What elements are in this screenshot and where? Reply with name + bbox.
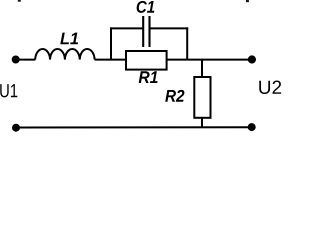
label U2 — [259, 81, 281, 94]
wire R1 to U2+ — [167, 59, 252, 61]
wire right leg of C1 branch — [186, 27, 188, 59]
node U1- terminal dot — [12, 124, 20, 132]
stray mark top edge right — [246, 0, 249, 2]
wire rail to R2 — [201, 60, 203, 77]
wire top branch left to C1 — [110, 27, 143, 29]
label C1 — [137, 1, 155, 13]
label R2 — [165, 90, 184, 102]
wire R2 to bottom rail — [201, 118, 203, 128]
inductor L1 — [35, 49, 94, 60]
wire bottom rail — [16, 126, 252, 128]
wire U1+ to L1 — [16, 59, 36, 61]
resistor R2 — [194, 77, 210, 118]
label L1 — [60, 33, 78, 45]
stray mark top edge left — [18, 0, 21, 2]
wire left leg of C1 branch — [110, 27, 112, 59]
node U2- terminal dot — [248, 123, 256, 131]
label R1 — [139, 71, 158, 83]
node U2+ terminal dot — [248, 55, 256, 63]
wire L1 to R1 — [95, 59, 126, 61]
wire top branch C1 to right leg — [150, 27, 189, 29]
capacitor C1 — [143, 16, 149, 47]
node U1+ terminal dot — [12, 56, 20, 64]
label U1 — [0, 84, 17, 97]
resistor R1 — [126, 51, 167, 70]
